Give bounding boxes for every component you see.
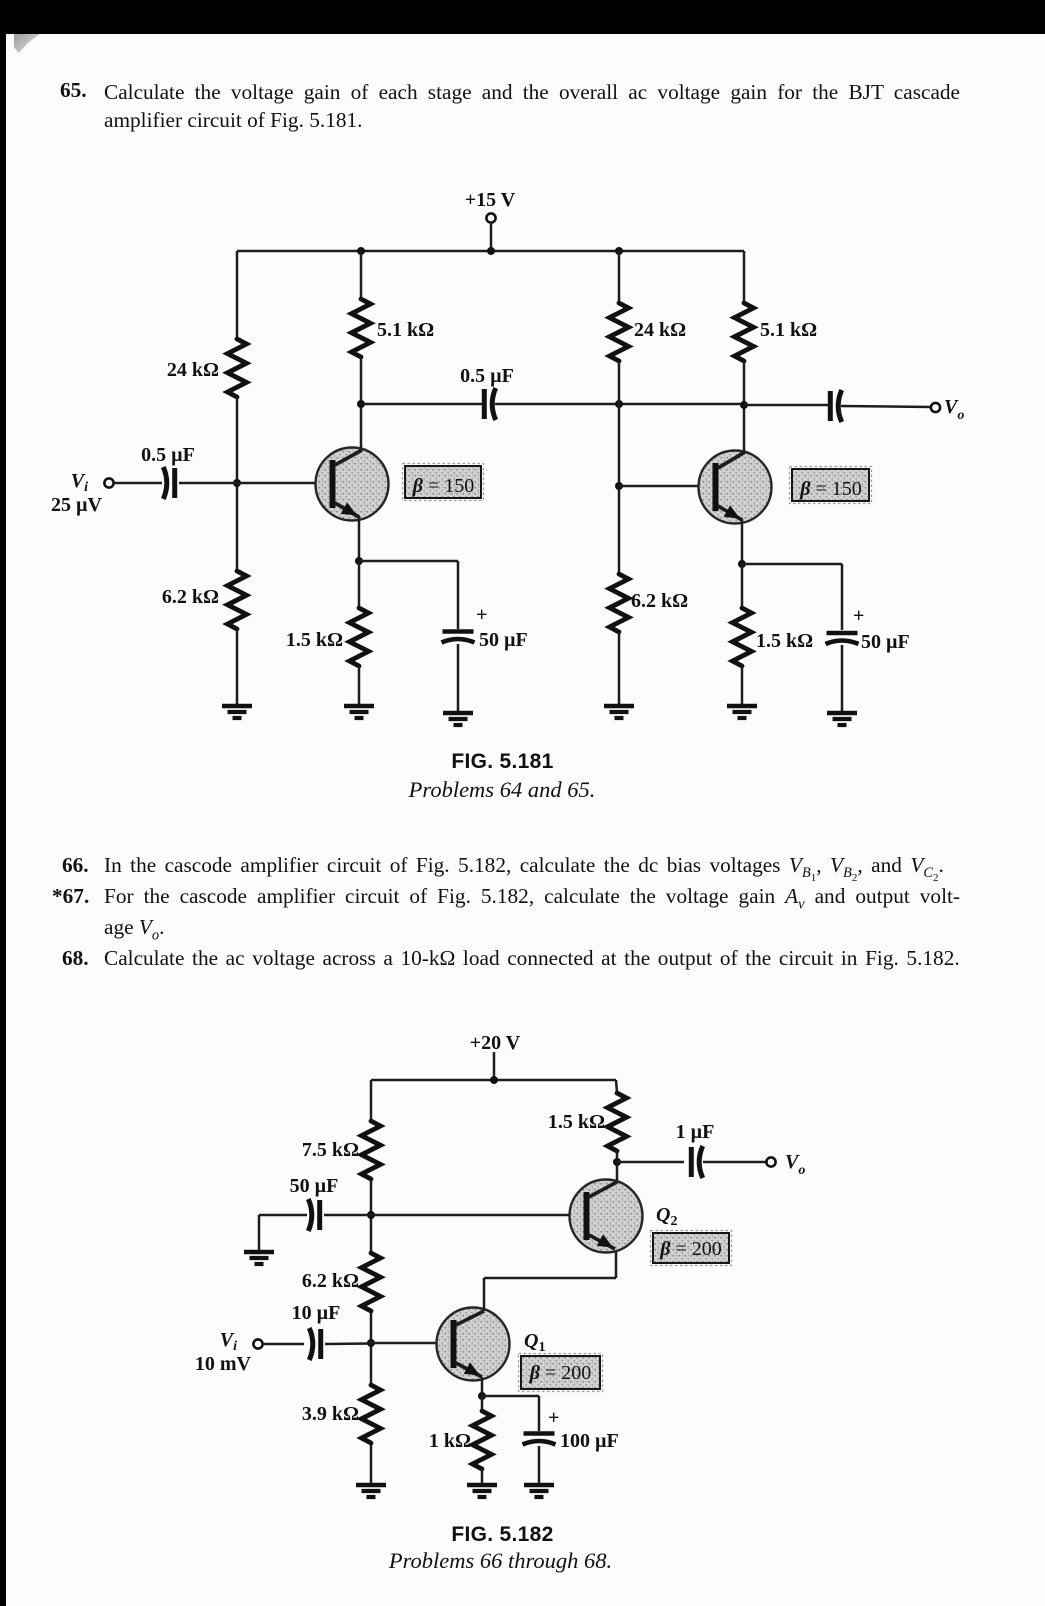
svg-text:100 µF: 100 µF <box>560 1430 619 1452</box>
svg-text:10 µF: 10 µF <box>292 1302 341 1324</box>
svg-text:β = 200: β = 200 <box>659 1238 722 1260</box>
svg-text:β = 150: β = 150 <box>412 475 475 497</box>
svg-text:50 µF: 50 µF <box>479 629 528 651</box>
svg-text:10 mV: 10 mV <box>195 1353 252 1375</box>
svg-text:6.2 kΩ: 6.2 kΩ <box>162 586 219 608</box>
svg-text:24 kΩ: 24 kΩ <box>634 319 686 341</box>
svg-text:Q1: Q1 <box>524 1330 545 1355</box>
svg-text:Vo: Vo <box>944 396 964 423</box>
svg-text:Vi: Vi <box>220 1329 237 1354</box>
svg-text:1 kΩ: 1 kΩ <box>429 1430 471 1452</box>
svg-text:5.1 kΩ: 5.1 kΩ <box>377 319 434 341</box>
svg-text:25 µV: 25 µV <box>51 494 103 516</box>
svg-text:3.9 kΩ: 3.9 kΩ <box>302 1403 359 1425</box>
svg-text:24 kΩ: 24 kΩ <box>167 359 219 381</box>
svg-text:5.1 kΩ: 5.1 kΩ <box>760 319 817 341</box>
svg-text:+: + <box>548 1407 559 1429</box>
svg-text:1.5 kΩ: 1.5 kΩ <box>286 629 343 651</box>
svg-text:+: + <box>853 605 864 627</box>
svg-text:1.5 kΩ: 1.5 kΩ <box>756 630 813 652</box>
svg-text:7.5 kΩ: 7.5 kΩ <box>302 1139 359 1161</box>
svg-text:+: + <box>476 604 487 626</box>
svg-text:β = 200: β = 200 <box>529 1362 592 1384</box>
svg-text:Vo: Vo <box>785 1151 805 1178</box>
svg-text:50 µF: 50 µF <box>861 631 910 653</box>
svg-text:1 µF: 1 µF <box>676 1121 715 1143</box>
svg-text:1.5 kΩ: 1.5 kΩ <box>548 1111 605 1133</box>
svg-text:β = 150: β = 150 <box>799 478 862 500</box>
svg-text:Q2: Q2 <box>656 1204 677 1229</box>
svg-text:6.2 kΩ: 6.2 kΩ <box>631 590 688 612</box>
svg-text:+20 V: +20 V <box>470 1032 521 1054</box>
svg-text:0.5 µF: 0.5 µF <box>460 365 514 387</box>
svg-text:50 µF: 50 µF <box>290 1175 339 1197</box>
svg-text:Vi: Vi <box>71 470 88 495</box>
svg-text:0.5 µF: 0.5 µF <box>141 444 195 466</box>
svg-text:6.2 kΩ: 6.2 kΩ <box>302 1270 359 1292</box>
svg-text:+15 V: +15 V <box>465 189 516 211</box>
